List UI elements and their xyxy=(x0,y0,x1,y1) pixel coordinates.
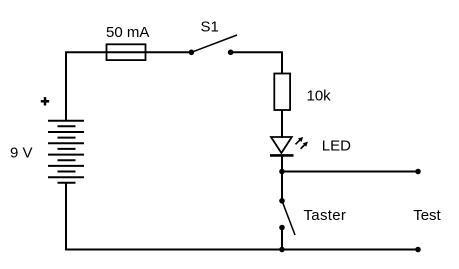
wire: junction down to Taster top contact xyxy=(281,172,283,201)
LED D1 xyxy=(270,137,308,156)
svg-text:50 mA: 50 mA xyxy=(106,24,149,41)
battery plus sign xyxy=(41,97,49,105)
wire: resistor to LED anode xyxy=(281,111,283,139)
node: Test lower terminal xyxy=(415,247,421,253)
resistor R1 10k xyxy=(274,74,290,111)
wire: LED cathode down to junction xyxy=(281,155,283,171)
switch S1 xyxy=(189,35,237,55)
wire: junction right to Test upper terminal xyxy=(282,171,416,173)
wire: top-left from battery + up and right to fuse xyxy=(66,52,106,120)
wire: bottom rail from battery minus to Test lower terminal xyxy=(66,183,416,250)
svg-text:9 V: 9 V xyxy=(10,144,33,161)
node: bottom rail junction xyxy=(279,247,285,253)
node: Test upper terminal xyxy=(415,169,421,175)
svg-text:Test: Test xyxy=(413,207,441,224)
svg-text:LED: LED xyxy=(322,138,351,155)
pushbutton Taster xyxy=(279,198,295,235)
fuse F1 50 mA xyxy=(107,44,146,60)
svg-text:Taster: Taster xyxy=(304,207,347,224)
wire: through fuse to switch S1 left contact xyxy=(106,51,189,53)
svg-text:S1: S1 xyxy=(201,19,219,36)
wire: Taster bottom contact down to bottom rail xyxy=(281,228,283,250)
svg-text:10k: 10k xyxy=(307,88,332,105)
wire: S1 right contact to corner, down to resistor xyxy=(233,52,283,74)
battery BT1 9V xyxy=(48,121,84,183)
node: LED-cathode junction xyxy=(279,169,285,175)
